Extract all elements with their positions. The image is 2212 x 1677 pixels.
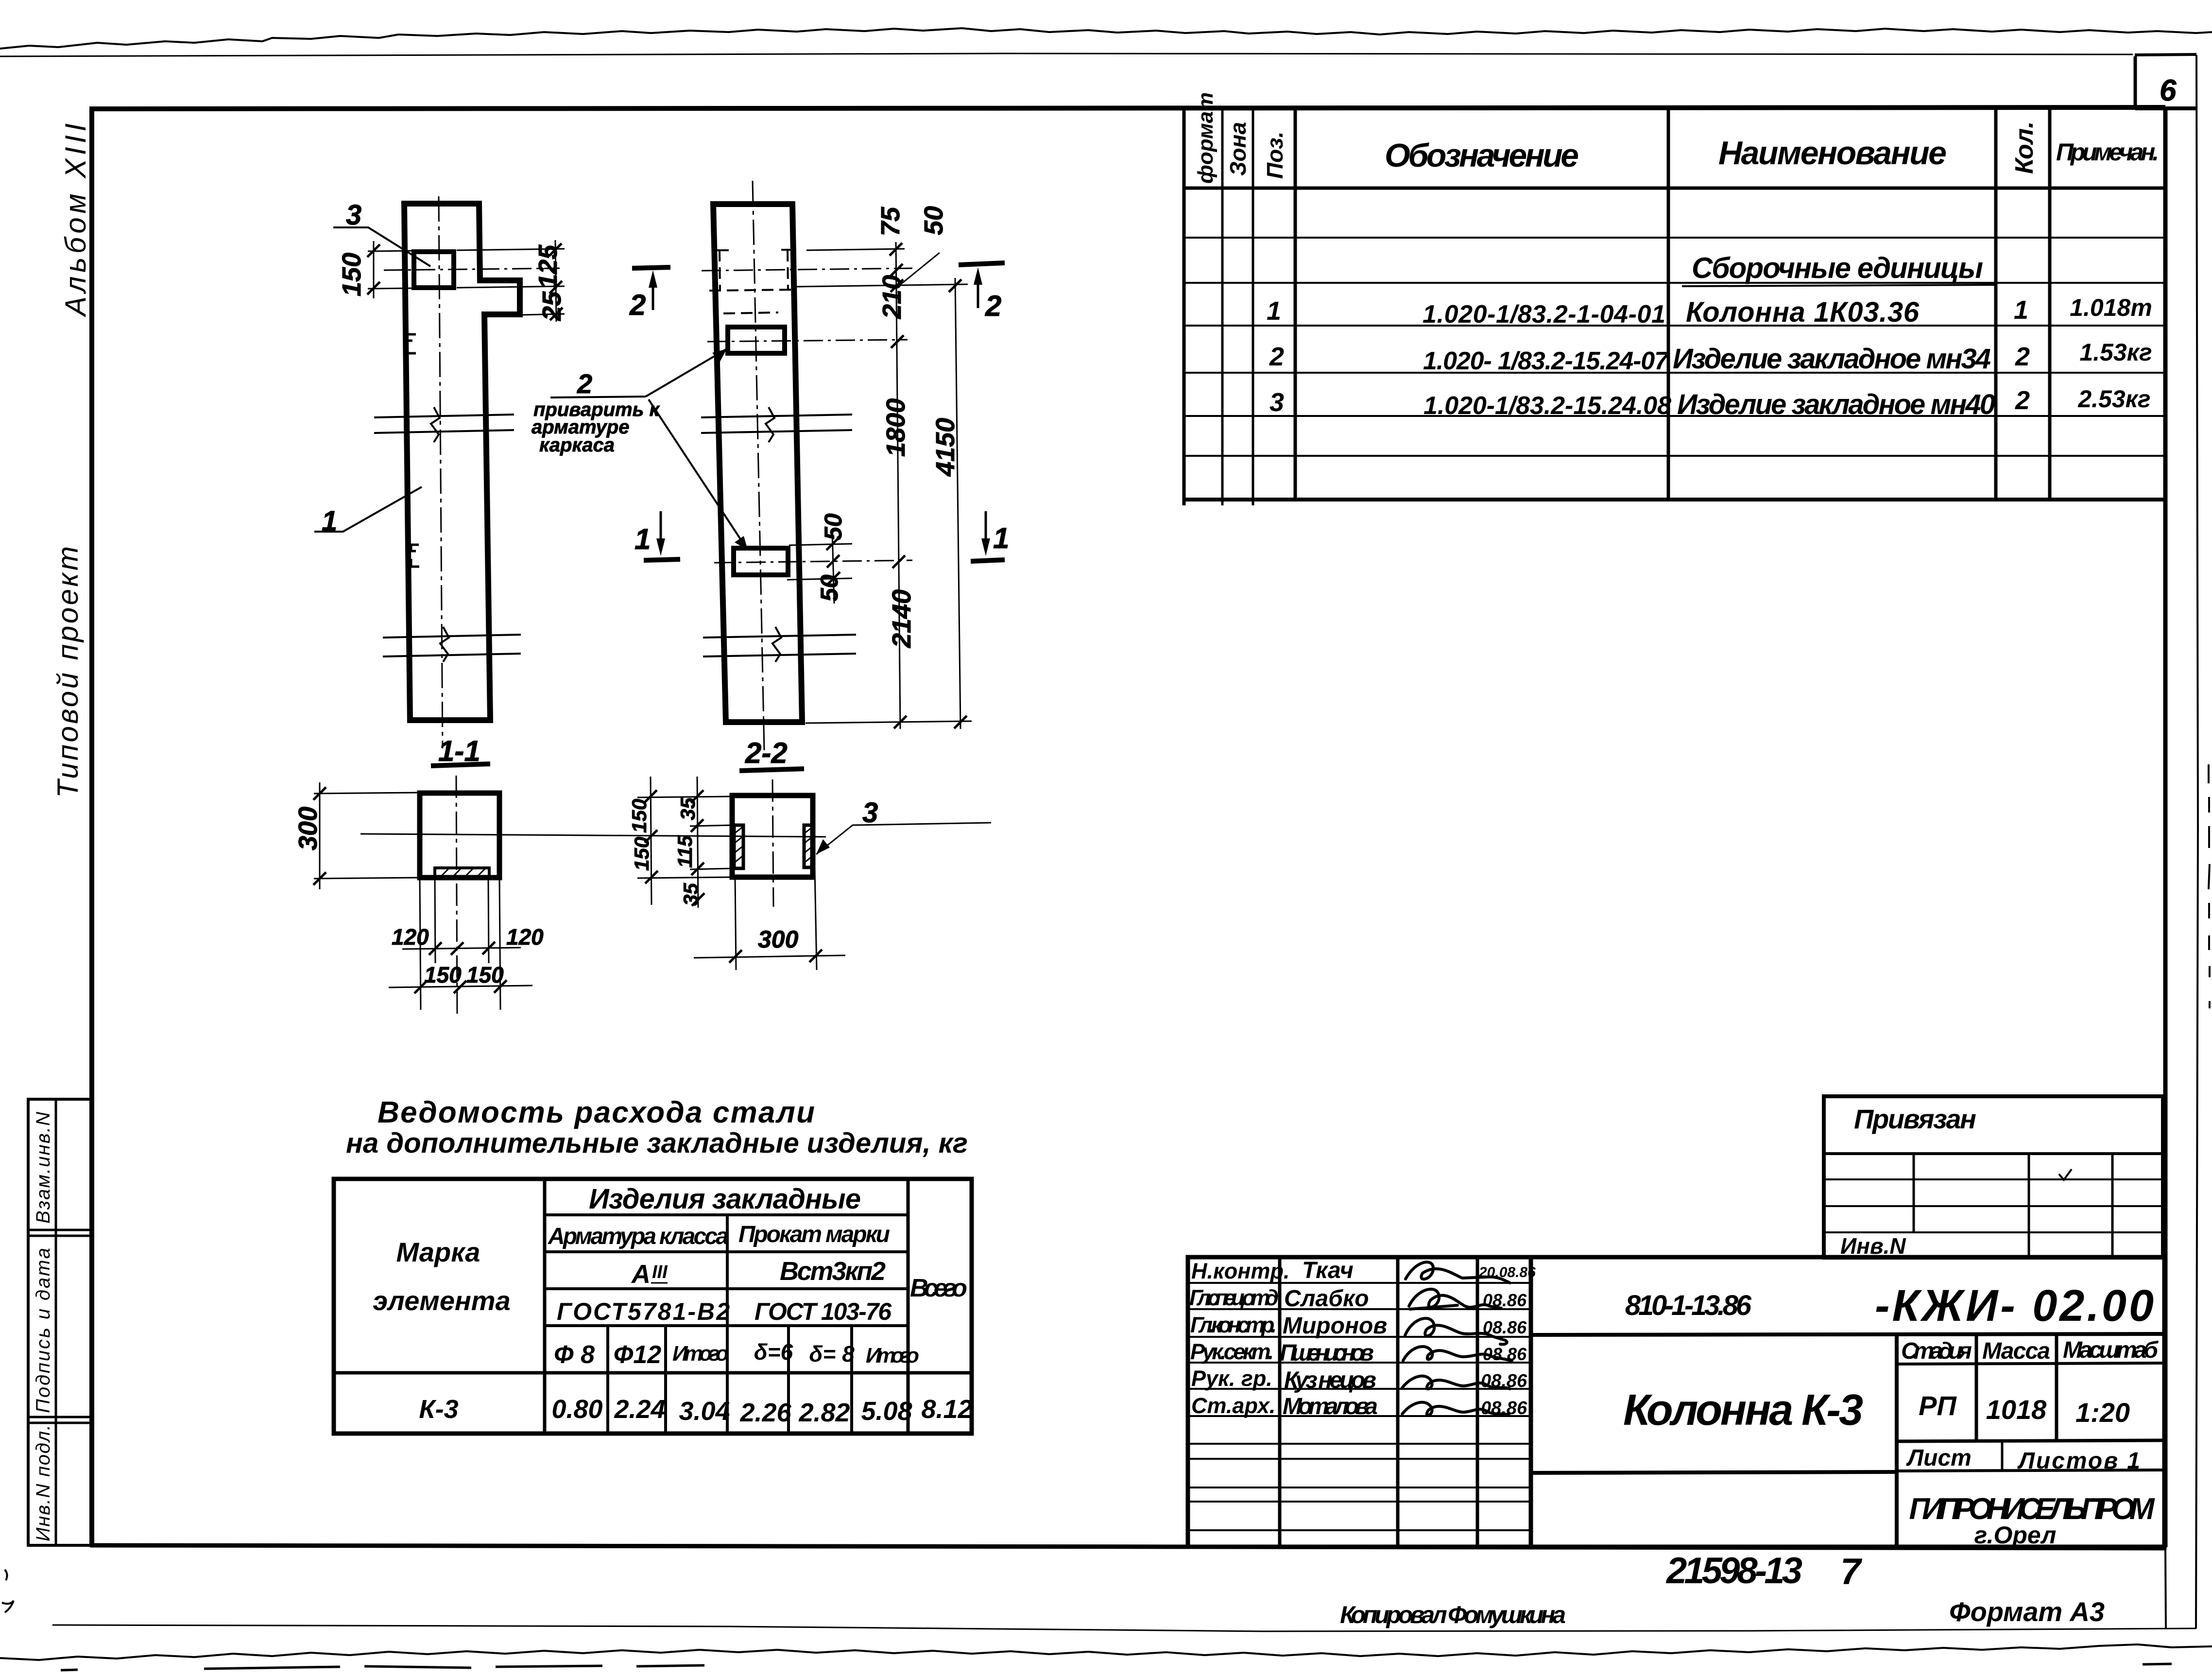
svg-text:ГОСТ 103-76: ГОСТ 103-76 <box>754 1298 892 1325</box>
svg-text:08.86: 08.86 <box>1481 1371 1527 1391</box>
torn bottom dashes <box>204 1664 2172 1669</box>
svg-text:элемента: элемента <box>373 1285 510 1316</box>
PRIVTABLE <box>1824 1096 2163 1259</box>
chain 2 ticks <box>949 279 967 728</box>
extension line bottom <box>806 721 972 723</box>
svg-text:Рук. гр.: Рук. гр. <box>1191 1366 1272 1391</box>
svg-text:Копировал Фомушкина: Копировал Фомушкина <box>1340 1601 1566 1628</box>
svg-text:Взам.инв.N: Взам.инв.N <box>33 1112 54 1224</box>
column elevation view 2 outline <box>713 204 802 722</box>
plate MH40 centre dash-dot <box>714 560 912 563</box>
svg-text:3.04: 3.04 <box>679 1397 730 1426</box>
svg-text:3: 3 <box>862 797 878 829</box>
svg-text:50: 50 <box>816 574 843 602</box>
svg-text:δ= 8: δ= 8 <box>809 1341 855 1366</box>
svg-text:300: 300 <box>293 807 323 850</box>
dim 150 line and ticks <box>373 241 375 298</box>
right margin dashed mark <box>2209 764 2210 1008</box>
svg-text:1800: 1800 <box>881 398 910 457</box>
svg-text:2: 2 <box>1269 342 1284 371</box>
svg-text:Поз.: Поз. <box>1262 132 1287 179</box>
extension line level A <box>806 249 905 250</box>
section 2-2 right plate <box>804 825 813 867</box>
svg-text:1: 1 <box>322 505 337 537</box>
break mark lower <box>383 635 521 657</box>
svg-text:2: 2 <box>577 368 592 399</box>
svg-text:Примечан.: Примечан. <box>2056 138 2159 166</box>
svg-text:35: 35 <box>676 797 699 820</box>
svg-text:3: 3 <box>346 199 361 231</box>
svg-text:Лист: Лист <box>1906 1445 1972 1471</box>
svg-text:Гл.констр.: Гл.констр. <box>1190 1313 1277 1337</box>
svg-text:150: 150 <box>466 962 504 987</box>
svg-text:Прокат марки: Прокат марки <box>738 1222 890 1247</box>
svg-text:Слабко: Слабко <box>1284 1286 1369 1312</box>
svg-text:Инв.N подл.: Инв.N подл. <box>33 1425 54 1541</box>
svg-text:г.Орел: г.Орел <box>1974 1521 2057 1549</box>
specification table grid <box>1183 107 1186 505</box>
STEELTABLE <box>334 1096 973 1434</box>
svg-text:150: 150 <box>628 799 651 833</box>
svg-text:25: 25 <box>537 291 566 321</box>
svg-text:Пшениснов: Пшениснов <box>1280 1340 1374 1366</box>
signature scribbles <box>1402 1262 1512 1415</box>
svg-text:РП: РП <box>1919 1390 1957 1421</box>
svg-text:2: 2 <box>2015 386 2030 415</box>
svg-text:115: 115 <box>673 835 696 868</box>
BOTTOMTEXT <box>1340 1550 2105 1628</box>
leader 1 <box>314 487 422 532</box>
svg-text:810-1-13.86: 810-1-13.86 <box>1625 1290 1752 1321</box>
svg-text:150: 150 <box>337 253 366 296</box>
section 2-2 axis <box>772 779 773 907</box>
svg-text:50: 50 <box>820 513 847 540</box>
svg-text:1: 1 <box>634 523 651 555</box>
svg-text:125: 125 <box>533 244 563 289</box>
small dim 50-50 extensions <box>787 544 852 580</box>
section mark 1 right <box>971 560 1005 561</box>
svg-text:Ф 8: Ф 8 <box>554 1341 595 1369</box>
svg-text:Марка: Марка <box>396 1237 480 1267</box>
svg-text:Итого: Итого <box>866 1344 919 1367</box>
embedded plate 3 top <box>414 252 454 288</box>
SECTION11 <box>293 776 826 1015</box>
svg-text:21598-13: 21598-13 <box>1665 1550 1802 1591</box>
svg-text:Изделия закладные: Изделия закладные <box>589 1183 861 1215</box>
svg-text:150: 150 <box>630 837 653 871</box>
svg-text:Изделие закладное мн34: Изделие закладное мн34 <box>1673 343 1991 375</box>
svg-text:1.020- 1/83.2-15.24-07: 1.020- 1/83.2-15.24-07 <box>1423 347 1669 375</box>
svg-text:120: 120 <box>392 924 429 950</box>
dim 125-25 line and ticks <box>555 240 556 322</box>
svg-text:08.86: 08.86 <box>1481 1398 1527 1418</box>
svg-text:Ткач: Ткач <box>1302 1258 1354 1283</box>
svg-text:на дополнительные закладные: на дополнительные закладные изделия, кг <box>346 1127 968 1159</box>
svg-text:08.86: 08.86 <box>1483 1317 1527 1337</box>
svg-text:2140: 2140 <box>887 589 916 648</box>
svg-text:20.08.86: 20.08.86 <box>1478 1264 1536 1280</box>
embedded plate MH40 lower <box>734 548 788 575</box>
section 2-2 square <box>732 795 813 877</box>
svg-text:5.08: 5.08 <box>861 1397 912 1426</box>
sheet number box <box>2134 56 2137 108</box>
svg-text:1.020-1/83.2-1-04-01: 1.020-1/83.2-1-04-01 <box>1423 300 1665 328</box>
column K-3 elevation outline <box>404 204 520 720</box>
svg-text:Колонна К-3: Колонна К-3 <box>1623 1386 1863 1435</box>
svg-text:Моталова: Моталова <box>1283 1394 1378 1419</box>
svg-text:1: 1 <box>993 522 1009 554</box>
svg-text:Итого: Итого <box>672 1342 729 1366</box>
dim 300 extensions <box>314 793 420 879</box>
svg-text:2: 2 <box>629 289 646 321</box>
dim 300 line <box>319 782 321 889</box>
sidebar boxes <box>28 1099 91 1545</box>
torn top edge <box>0 28 2212 49</box>
dim 125-25 extension lines <box>457 249 565 315</box>
middle horizontal dividers <box>1531 1334 2164 1335</box>
hidden corbel dashed lines <box>720 250 788 291</box>
svg-text:1.020-1/83.2-15.24.08: 1.020-1/83.2-15.24.08 <box>1423 392 1671 420</box>
break mark lower col2 <box>703 635 856 657</box>
signature area rows <box>1188 1283 1531 1530</box>
svg-text:0.80: 0.80 <box>551 1395 602 1424</box>
svg-text:-КЖИ- 02.00: -КЖИ- 02.00 <box>1875 1281 2154 1331</box>
svg-text:1: 1 <box>1267 296 1281 326</box>
svg-text:8.12: 8.12 <box>921 1395 972 1424</box>
svg-text:300: 300 <box>758 926 799 953</box>
dim line 150-150 <box>389 985 532 987</box>
extension line level B <box>794 284 968 287</box>
leader 3 <box>333 227 430 266</box>
section mark 1 left <box>644 559 680 560</box>
plate 3 centre dash-dot <box>384 268 560 270</box>
svg-text:К-3: К-3 <box>419 1395 458 1424</box>
torn bottom edge <box>0 1644 2212 1660</box>
svg-text:210: 210 <box>877 275 907 319</box>
svg-text:7: 7 <box>1840 1551 1863 1592</box>
svg-text:2.26: 2.26 <box>739 1398 791 1427</box>
svg-text:Привязан: Привязан <box>1854 1104 1976 1134</box>
svg-text:Куз нецов: Куз нецов <box>1284 1367 1376 1393</box>
corbel centre dash-dot <box>702 268 912 271</box>
svg-text:каркаса: каркаса <box>539 434 615 456</box>
svg-text:Масса: Масса <box>1982 1338 2050 1364</box>
left margin handwritten marks <box>2 1570 14 1612</box>
svg-text:формат: формат <box>1194 92 1217 184</box>
svg-text:Кол.: Кол. <box>2010 121 2039 174</box>
svg-text:2.53кг: 2.53кг <box>2077 385 2150 413</box>
svg-text:1018: 1018 <box>1986 1394 2047 1425</box>
dim line 120-120 <box>402 948 521 949</box>
dim chain 2 line <box>955 278 960 729</box>
svg-text:Рук.сект.: Рук.сект. <box>1190 1339 1274 1364</box>
svg-text:08.86: 08.86 <box>1483 1290 1527 1310</box>
SIDEBAR <box>28 121 92 1545</box>
svg-text:2: 2 <box>2015 342 2030 371</box>
hook mark upper left edge <box>407 334 416 353</box>
svg-text:Инв.N: Инв.N <box>1840 1233 1906 1259</box>
svg-text:3: 3 <box>1269 388 1284 417</box>
inner dim line 35-115-35 <box>697 777 698 908</box>
frame right lower thin continuation <box>2165 1548 2166 1628</box>
note leaders to plates <box>646 349 727 397</box>
svg-text:Стадия: Стадия <box>1901 1338 1972 1364</box>
small check mark <box>2059 1169 2072 1180</box>
svg-text:Наименование: Наименование <box>1718 135 1947 172</box>
bottom page edge line <box>52 1625 2196 1631</box>
dim 300 line below <box>694 955 845 958</box>
svg-text:Гл.спец.отд: Гл.спец.отд <box>1189 1285 1279 1310</box>
extension verticals below 1-1 <box>420 878 500 1010</box>
thin page edge line top <box>0 53 2133 56</box>
svg-text:Зона: Зона <box>1225 122 1251 176</box>
svg-text:Всего: Всего <box>910 1274 967 1302</box>
svg-text:75: 75 <box>876 207 905 236</box>
DRAWING1 <box>314 196 566 767</box>
svg-text:50: 50 <box>919 206 948 235</box>
title block outer box <box>1188 1257 2164 1547</box>
svg-text:Ст.арх.: Ст.арх. <box>1191 1393 1275 1418</box>
svg-text:Колонна 1К03.36: Колонна 1К03.36 <box>1686 296 1920 328</box>
stadia columns <box>1895 1335 1899 1547</box>
svg-text:1:20: 1:20 <box>2075 1397 2130 1428</box>
svg-text:Типовой проект: Типовой проект <box>51 545 84 798</box>
svg-text:Листов 1: Листов 1 <box>2017 1448 2140 1474</box>
svg-text:2-2: 2-2 <box>745 737 788 769</box>
plate MH34 centre dash-dot <box>707 340 908 342</box>
svg-text:1.53кг: 1.53кг <box>2079 339 2152 366</box>
column 2 axis dash-dot <box>753 181 764 751</box>
hook mark lower left edge <box>411 545 419 567</box>
dim chain 1 line <box>896 242 900 729</box>
section 2-2 left plate <box>734 825 743 868</box>
embedded plate MH34 upper <box>728 327 785 353</box>
svg-text:2.82: 2.82 <box>798 1398 850 1427</box>
break mark upper col2 <box>701 415 852 433</box>
dim 300 extensions below <box>735 868 817 970</box>
svg-text:Подпись и дата: Подпись и дата <box>33 1248 54 1413</box>
steel table grid <box>334 1179 972 1434</box>
svg-text:Ф12: Ф12 <box>614 1341 662 1369</box>
section 1-1 square <box>420 793 499 878</box>
dim 150 extension lines <box>368 251 413 289</box>
section centre line between 1-1 and 2-2 <box>360 834 826 837</box>
svg-text:δ=6: δ=6 <box>754 1339 793 1365</box>
svg-text:120: 120 <box>506 924 544 950</box>
svg-text:2.24: 2.24 <box>614 1395 665 1424</box>
chain 1 ticks <box>890 243 907 728</box>
title block main verticals <box>1280 1257 1477 1547</box>
svg-text:А: А <box>631 1260 651 1289</box>
svg-text:35: 35 <box>679 883 702 906</box>
break mark upper <box>374 415 514 433</box>
svg-text:2: 2 <box>985 290 1001 322</box>
svg-text:ГИПРОНИСЕЛЬПРОМ: ГИПРОНИСЕЛЬПРОМ <box>1909 1492 2155 1526</box>
outer dim line 150-150 <box>651 777 652 905</box>
привязан table box <box>1824 1096 2163 1258</box>
section 1-1 axis <box>456 776 457 1015</box>
svg-text:Вст3кп2: Вст3кп2 <box>780 1257 886 1286</box>
svg-text:III: III <box>652 1262 668 1282</box>
svg-text:4150: 4150 <box>931 418 960 477</box>
SECTION22 <box>628 737 991 970</box>
right page edge line <box>2135 54 2196 56</box>
svg-text:Н.контр.: Н.контр. <box>1191 1259 1289 1283</box>
svg-text:Ведомость расхода стали: Ведомость расхода стали <box>377 1096 815 1129</box>
svg-text:Альбом ХIII: Альбом ХIII <box>59 121 92 317</box>
svg-text:1.018т: 1.018т <box>2070 294 2152 321</box>
svg-text:1: 1 <box>2014 295 2028 325</box>
svg-text:6: 6 <box>2160 74 2177 107</box>
SPECTABLE <box>1184 107 2165 505</box>
svg-text:08.86: 08.86 <box>1483 1344 1527 1364</box>
svg-text:150: 150 <box>424 962 462 987</box>
svg-text:Миронов: Миронов <box>1283 1313 1387 1339</box>
svg-text:ГОСТ5781-В2: ГОСТ5781-В2 <box>557 1298 730 1325</box>
svg-text:Формат А3: Формат А3 <box>1949 1596 2105 1627</box>
column axis dash-dot <box>439 196 443 748</box>
svg-text:Обозначение: Обозначение <box>1385 137 1579 174</box>
svg-text:Сборочные единицы: Сборочные единицы <box>1692 252 1983 284</box>
svg-text:Арматура класса: Арматура класса <box>548 1224 729 1249</box>
TITLEBLOCK <box>1188 1257 2164 1549</box>
DRAWING2 <box>532 181 1009 751</box>
section mark 2 right <box>959 263 1005 265</box>
svg-text:Изделие закладное мн40: Изделие закладное мн40 <box>1677 389 1995 420</box>
section 1-1 bottom plate hatched <box>435 868 489 878</box>
section mark 2 left <box>632 267 670 268</box>
svg-text:Масштаб: Масштаб <box>2063 1337 2159 1363</box>
left dim extensions <box>637 796 734 878</box>
